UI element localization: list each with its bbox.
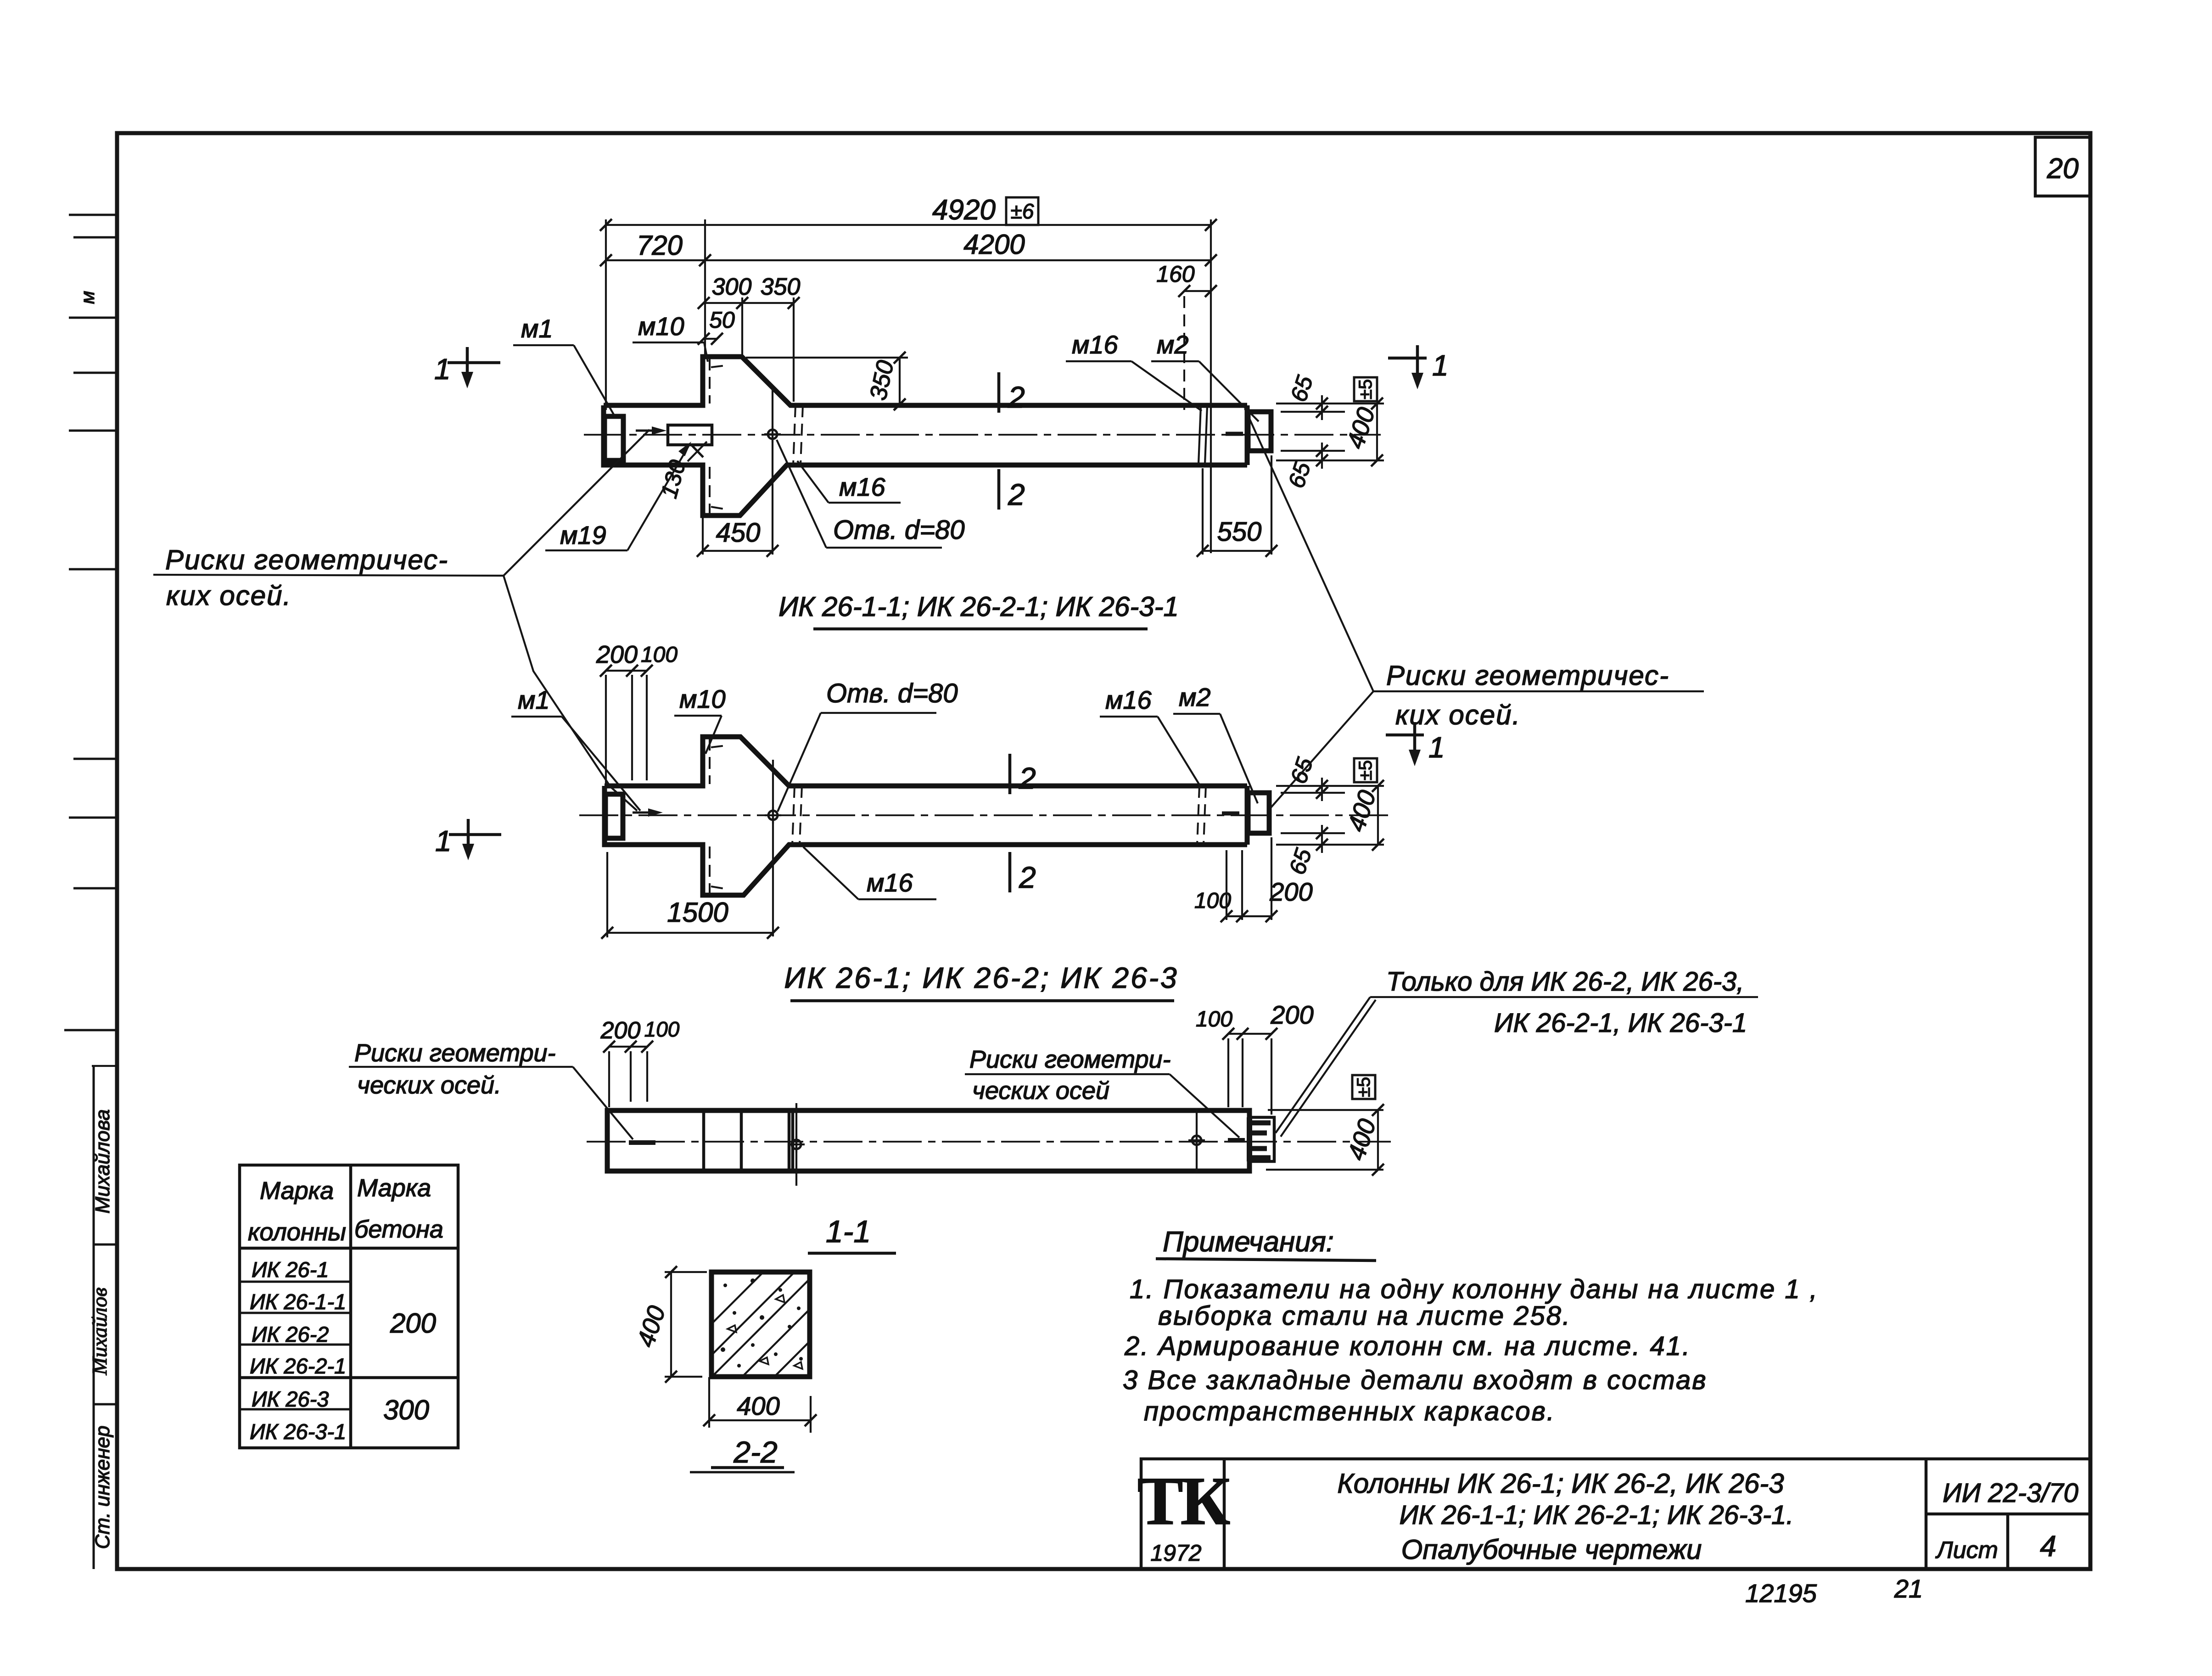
svg-text:400: 400 bbox=[1342, 1115, 1381, 1163]
svg-text:Риски геометричес-: Риски геометричес- bbox=[1386, 660, 1669, 691]
svg-text:450: 450 bbox=[716, 518, 761, 548]
axis risk dash left section 1-1 bbox=[629, 1140, 655, 1145]
drawing sheet frame bbox=[117, 133, 2090, 1569]
svg-text:1-1: 1-1 bbox=[826, 1214, 871, 1249]
svg-text:350: 350 bbox=[865, 358, 899, 403]
svg-text:21: 21 bbox=[1894, 1574, 1923, 1603]
svg-text:ких осей.: ких осей. bbox=[1395, 700, 1521, 730]
hidden lines of console head bbox=[710, 359, 728, 514]
svg-text:м2: м2 bbox=[1179, 683, 1211, 712]
concrete stipple dots section 2-2 bbox=[721, 1278, 803, 1369]
svg-text:200: 200 bbox=[596, 641, 638, 668]
section mark 1 right middle view bbox=[1386, 722, 1445, 766]
svg-text:200: 200 bbox=[1269, 877, 1312, 906]
svg-text:ИК 26-1-1; ИК 26-2-1; ИК 26-: ИК 26-1-1; ИК 26-2-1; ИК 26-3-1. bbox=[1400, 1500, 1794, 1530]
dimension 160 at right bbox=[1156, 261, 1217, 410]
dimension 100 200 below right middle view bbox=[1194, 837, 1313, 922]
svg-text:1: 1 bbox=[1428, 731, 1445, 764]
section 2-2 square bbox=[711, 1272, 810, 1377]
svg-text:200: 200 bbox=[600, 1017, 641, 1044]
centerline middle column bbox=[579, 814, 1394, 816]
dimension 400 right middle view with box ±5 bbox=[1342, 758, 1384, 851]
svg-text:550: 550 bbox=[1217, 517, 1262, 547]
dimension 400 below 2-2 bbox=[703, 1377, 817, 1433]
svg-text:ИК 26-3: ИК 26-3 bbox=[252, 1387, 329, 1411]
svg-text:100: 100 bbox=[641, 643, 678, 667]
svg-text:350: 350 bbox=[761, 274, 801, 300]
svg-text:ческих осей.: ческих осей. bbox=[357, 1071, 501, 1099]
serrated tenon section 1-1 bbox=[1249, 1117, 1274, 1161]
svg-text:720: 720 bbox=[637, 230, 683, 261]
svg-text:200: 200 bbox=[390, 1308, 436, 1339]
svg-text:пространственных каркасов.: пространственных каркасов. bbox=[1144, 1396, 1556, 1426]
centerline section 1-1 bbox=[587, 1141, 1391, 1143]
svg-text:400: 400 bbox=[1341, 404, 1380, 452]
svg-text:4920: 4920 bbox=[932, 194, 996, 226]
svg-text:±6: ±6 bbox=[1011, 199, 1034, 223]
dimension 720 and 4200 bbox=[600, 229, 1217, 266]
svg-text:65: 65 bbox=[1286, 372, 1318, 404]
svg-text:400: 400 bbox=[1342, 787, 1381, 835]
svg-text:1: 1 bbox=[1432, 349, 1449, 382]
label m2 top view bbox=[1151, 330, 1259, 421]
svg-text:ИК 26-1: ИК 26-1 bbox=[252, 1257, 329, 1282]
svg-text:Риски геометричес-: Риски геометричес- bbox=[165, 544, 448, 575]
column outline top view bbox=[604, 357, 1247, 516]
title text bbox=[1337, 1468, 1793, 1565]
hole position extension line middle view bbox=[772, 760, 774, 936]
end plate m1 top view bbox=[605, 416, 623, 460]
hole left section 1-1 bbox=[788, 1103, 805, 1186]
dimension 130 embed offset bbox=[656, 442, 707, 501]
svg-text:ИИ 22-3/70: ИИ 22-3/70 bbox=[1943, 1478, 2078, 1508]
label m16 right top view bbox=[1066, 330, 1202, 411]
embed plate m19 bbox=[668, 425, 712, 445]
heading IK26-1-1 IK26-2-1 IK26-3-1 bbox=[778, 591, 1179, 629]
label m1 middle view bbox=[511, 685, 640, 811]
heading IK26-1 IK26-2 IK26-3 bbox=[784, 961, 1178, 1001]
svg-text:2: 2 bbox=[1008, 477, 1025, 511]
dimension 400 left of 2-2 bbox=[632, 1266, 707, 1383]
hole Otv d=80 top view bbox=[764, 426, 781, 443]
label m16 at hole top view bbox=[797, 461, 901, 503]
dimension 400 right section 1-1 with box ±5 bbox=[1266, 1075, 1384, 1176]
svg-text:м10: м10 bbox=[679, 684, 726, 713]
table concrete mark texts bbox=[383, 1308, 436, 1425]
dimension 65 bottom right bbox=[1276, 443, 1384, 491]
leader text riski geometri left section 1-1 bbox=[349, 1039, 633, 1139]
leader text left riski geometricheskih osey bbox=[153, 430, 650, 811]
svg-text:м16: м16 bbox=[839, 472, 886, 501]
svg-text:Колонны ИК 26-1; ИК 26-2, И: Колонны ИК 26-1; ИК 26-2, ИК 26-3 bbox=[1337, 1468, 1784, 1499]
axis risk arrow left top view bbox=[636, 426, 666, 435]
svg-text:ИК 26-3-1: ИК 26-3-1 bbox=[250, 1419, 346, 1444]
dimension 4920 with box ±6 bbox=[600, 194, 1217, 231]
dimension 200 100 top left middle view bbox=[596, 641, 678, 790]
svg-text:м10: м10 bbox=[638, 312, 684, 341]
svg-text:100: 100 bbox=[644, 1017, 680, 1041]
label m10 top view bbox=[633, 312, 708, 362]
svg-text:ИК 26-2-1, ИК 26-3-1: ИК 26-2-1, ИК 26-3-1 bbox=[1494, 1008, 1747, 1038]
dimension 65 top right middle view bbox=[1276, 754, 1384, 801]
heading 2-2 bbox=[690, 1435, 795, 1472]
axis risk arrow left middle view bbox=[633, 808, 663, 817]
leader text riski geometri right section 1-1 bbox=[965, 1046, 1239, 1138]
svg-text:Примечания:: Примечания: bbox=[1163, 1226, 1334, 1258]
svg-text:ИК 26-2: ИК 26-2 bbox=[252, 1322, 329, 1346]
svg-text:Ст. инженер: Ст. инженер bbox=[91, 1426, 114, 1549]
svg-text:4200: 4200 bbox=[963, 229, 1025, 260]
svg-text:300: 300 bbox=[712, 274, 752, 300]
svg-text:20: 20 bbox=[2047, 153, 2079, 185]
svg-text:400: 400 bbox=[632, 1302, 671, 1350]
fold tick marks on left border bbox=[64, 215, 116, 1030]
svg-text:65: 65 bbox=[1284, 845, 1317, 877]
svg-text:±5: ±5 bbox=[1355, 760, 1376, 780]
svg-text:выборка стали на листе 258.: выборка стали на листе 258. bbox=[1158, 1301, 1571, 1331]
svg-text:300: 300 bbox=[383, 1395, 429, 1425]
svg-text:Михайлов: Михайлов bbox=[88, 1288, 111, 1376]
leader text tolko dlya IK26-2 IK26-3 bbox=[1276, 967, 1758, 1137]
svg-text:1972: 1972 bbox=[1150, 1540, 1201, 1566]
svg-text:ческих осей: ческих осей bbox=[972, 1077, 1109, 1104]
svg-text:Риски геометри-: Риски геометри- bbox=[354, 1039, 556, 1067]
label m2 middle view bbox=[1173, 683, 1258, 803]
TK logo bbox=[1137, 1463, 1230, 1566]
dimension 65 bottom right middle view bbox=[1276, 825, 1384, 878]
label m16 bottom middle view bbox=[803, 847, 936, 899]
label m16 right middle view bbox=[1100, 685, 1201, 788]
section marks 2 middle view bbox=[1010, 754, 1036, 894]
dimension 65 top right bbox=[1276, 372, 1384, 420]
svg-text:ИК 26-1-1: ИК 26-1-1 bbox=[250, 1289, 346, 1314]
sheet number box 20 bbox=[2035, 137, 2090, 196]
svg-text:м: м bbox=[77, 291, 98, 304]
end plate m1 middle view bbox=[605, 794, 623, 838]
svg-text:3 Все закладные детали входят: 3 Все закладные детали входят в состав bbox=[1123, 1365, 1708, 1395]
svg-text:м16: м16 bbox=[1105, 685, 1152, 714]
label Otv d=80 middle view bbox=[778, 678, 958, 812]
svg-text:Отв. d=80: Отв. d=80 bbox=[833, 515, 965, 545]
hole Otv d=80 middle view bbox=[765, 807, 781, 824]
svg-text:100: 100 bbox=[1196, 1007, 1232, 1031]
hidden embed marks beside hole top view bbox=[793, 405, 803, 465]
dimension 50 bbox=[698, 307, 735, 345]
axis risk dash right middle view bbox=[1222, 812, 1239, 816]
print codes below bbox=[1745, 1574, 1923, 1608]
svg-text:65: 65 bbox=[1283, 459, 1316, 491]
heading 1-1 bbox=[808, 1214, 896, 1253]
label m1 top view bbox=[513, 314, 615, 417]
table header texts bbox=[248, 1174, 443, 1246]
hole position extension line bbox=[772, 388, 773, 555]
svg-text:ИК 26-2-1: ИК 26-2-1 bbox=[250, 1354, 346, 1378]
dimension 300 350 bbox=[698, 274, 800, 402]
svg-text:Риски геометри-: Риски геометри- bbox=[969, 1046, 1171, 1073]
dimension 550 bbox=[1197, 455, 1277, 557]
svg-text:Только для ИК 26-2, ИК 26-3,: Только для ИК 26-2, ИК 26-3, bbox=[1386, 967, 1744, 997]
svg-text:4: 4 bbox=[2040, 1530, 2056, 1563]
svg-text:м16: м16 bbox=[1072, 330, 1119, 359]
svg-text:50: 50 bbox=[709, 307, 735, 333]
svg-text:±5: ±5 bbox=[1354, 1077, 1374, 1097]
svg-text:160: 160 bbox=[1156, 261, 1195, 287]
svg-text:2. Армирование колонн см. на: 2. Армирование колонн см. на листе. 41. bbox=[1124, 1331, 1691, 1361]
section mark 1 right top view bbox=[1388, 345, 1449, 389]
inner edges section 1-1 bbox=[704, 1110, 793, 1171]
svg-text:ТК: ТК bbox=[1137, 1463, 1230, 1539]
centerline top column bbox=[584, 434, 1381, 436]
svg-text:2-2: 2-2 bbox=[733, 1435, 777, 1469]
svg-text:1500: 1500 bbox=[667, 897, 728, 928]
svg-text:м1: м1 bbox=[521, 314, 553, 343]
svg-text:бетона: бетона bbox=[354, 1216, 443, 1243]
section mark 1 left middle view bbox=[435, 819, 501, 860]
dimension 1500 bbox=[601, 852, 779, 939]
table column mark texts bbox=[250, 1257, 346, 1444]
label m10 middle view bbox=[674, 684, 726, 754]
hidden lines of console head middle view bbox=[710, 739, 728, 893]
section mark 1 left top view bbox=[434, 347, 500, 388]
svg-text:колонны: колонны bbox=[248, 1218, 346, 1246]
title block grid bbox=[1141, 1459, 2090, 1569]
svg-text:2: 2 bbox=[1019, 761, 1036, 795]
dimension 450 bbox=[697, 518, 778, 557]
svg-text:м16: м16 bbox=[867, 868, 913, 897]
dimension 100 200 right section 1-1 bbox=[1196, 1000, 1314, 1115]
svg-text:Отв. d=80: Отв. d=80 bbox=[826, 678, 958, 708]
section marks 2 top view bbox=[999, 372, 1025, 511]
svg-text:12195: 12195 bbox=[1745, 1579, 1817, 1608]
svg-text:1: 1 bbox=[434, 353, 451, 386]
dimension 400 right with box ±5 bbox=[1341, 377, 1383, 466]
svg-text:1: 1 bbox=[435, 824, 452, 858]
embed m16 marks near right end bbox=[1198, 406, 1207, 464]
hole right section 1-1 bbox=[1188, 1108, 1205, 1173]
vertical dimension 350 head height bbox=[746, 352, 908, 410]
svg-text:Марка: Марка bbox=[357, 1174, 431, 1202]
dimension 200 100 left section 1-1 bbox=[600, 1017, 680, 1107]
svg-text:ИК 26-1; ИК 26-2; ИК 26-3: ИК 26-1; ИК 26-2; ИК 26-3 bbox=[784, 961, 1178, 994]
left signature strip bbox=[88, 1066, 118, 1569]
axis risk dash right top view bbox=[1226, 432, 1243, 436]
svg-text:2: 2 bbox=[1019, 860, 1036, 894]
extension lines for length dimensions bbox=[606, 219, 1211, 553]
svg-text:Опалубочные чертежи: Опалубочные чертежи bbox=[1401, 1534, 1702, 1565]
tenon at right end top view bbox=[1248, 412, 1271, 451]
svg-text:Лист: Лист bbox=[1935, 1537, 1998, 1564]
svg-text:±5: ±5 bbox=[1355, 379, 1376, 399]
svg-text:Михайлова: Михайлова bbox=[91, 1109, 114, 1213]
svg-text:ких осей.: ких осей. bbox=[166, 580, 291, 611]
table grid bbox=[240, 1165, 458, 1448]
column body section 1-1 bbox=[607, 1110, 1249, 1171]
svg-text:м19: м19 bbox=[560, 521, 606, 549]
svg-text:Марка: Марка bbox=[260, 1177, 334, 1205]
tenon at right end middle view bbox=[1248, 793, 1269, 833]
svg-text:400: 400 bbox=[737, 1391, 779, 1420]
svg-text:1. Показатели на одну колонну: 1. Показатели на одну колонну даны на ли… bbox=[1130, 1274, 1819, 1304]
svg-text:ИК 26-1-1; ИК 26-2-1; ИК 26-3: ИК 26-1-1; ИК 26-2-1; ИК 26-3-1 bbox=[778, 591, 1179, 622]
sheet cell bbox=[1935, 1530, 2056, 1564]
column outline middle view bbox=[605, 737, 1247, 895]
notes heading bbox=[1156, 1226, 1376, 1261]
hidden embed marks beside hole bbox=[792, 786, 802, 845]
leader text right riski geometricheskih osey bbox=[1245, 409, 1704, 808]
label m19 bbox=[545, 442, 691, 550]
axis risk dash right section 1-1 bbox=[1228, 1138, 1245, 1143]
hidden embed m16 marks near right end middle view bbox=[1197, 786, 1206, 845]
concrete hatching section 2-2 bbox=[713, 1273, 808, 1375]
svg-text:2: 2 bbox=[1008, 380, 1025, 414]
svg-text:м2: м2 bbox=[1157, 330, 1189, 359]
svg-text:200: 200 bbox=[1270, 1000, 1313, 1029]
label Otv d=80 top view bbox=[777, 440, 965, 548]
